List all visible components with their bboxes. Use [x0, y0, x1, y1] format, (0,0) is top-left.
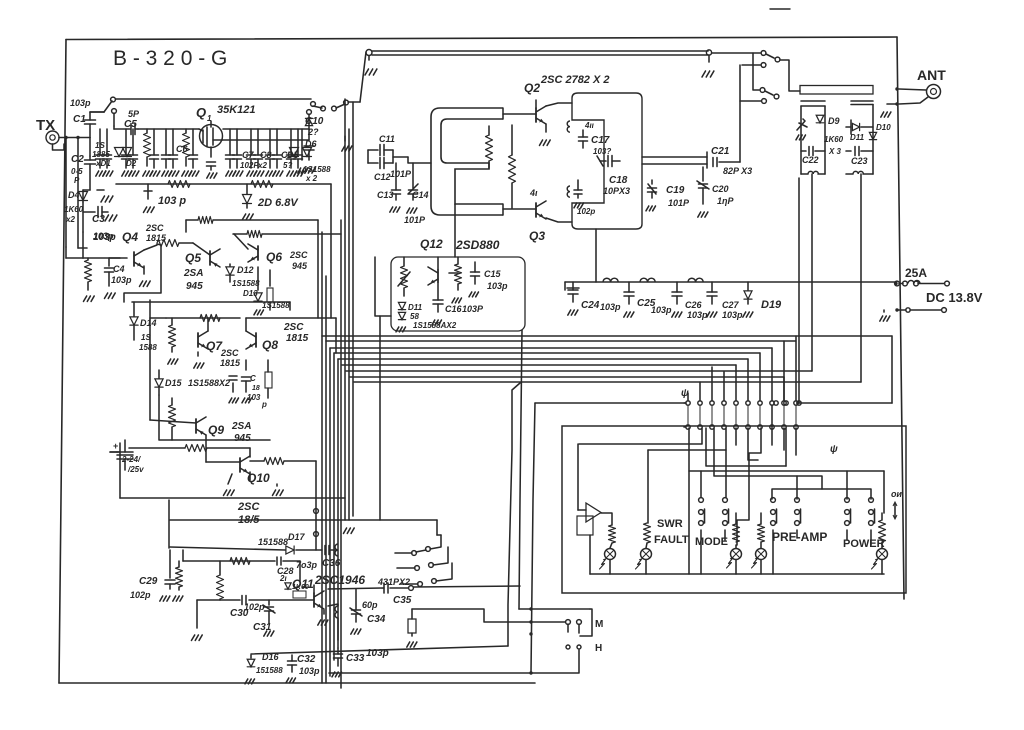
svg-text:2SA: 2SA — [231, 421, 251, 432]
svg-text:C21: C21 — [711, 146, 730, 157]
svg-text:2SC: 2SC — [220, 348, 239, 358]
label PRE-AMP — [772, 530, 827, 544]
wire — [230, 267, 270, 310]
capacitor C21 — [711, 146, 752, 176]
svg-text:C19: C19 — [666, 185, 685, 196]
svg-text:18: 18 — [252, 385, 260, 392]
wire bias rail — [116, 184, 331, 318]
svg-text:C20: C20 — [712, 184, 729, 194]
wire riser A — [508, 383, 520, 646]
label 103p — [158, 195, 186, 207]
inductor — [640, 278, 655, 282]
switch MODE b — [723, 498, 729, 540]
svg-text:C22: C22 — [802, 155, 819, 165]
svg-text:D2: D2 — [126, 159, 137, 168]
resistor — [251, 181, 273, 188]
svg-text:/25v: /25v — [127, 465, 144, 474]
svg-text:945: 945 — [292, 261, 308, 271]
label 60p C34 — [350, 589, 386, 634]
svg-text:Q9: Q9 — [208, 423, 224, 437]
electrolytic 2-24/25V — [110, 440, 144, 474]
bus right verticals — [784, 336, 892, 403]
diode D19 — [743, 282, 782, 317]
resistor — [452, 257, 462, 303]
svg-text:Q: Q — [196, 105, 206, 120]
ground — [342, 136, 352, 151]
diode block left D9 — [796, 101, 844, 174]
capacitor C27 — [707, 282, 743, 320]
svg-text:D19: D19 — [761, 299, 782, 311]
transistor Q6 2SC945 — [234, 234, 308, 271]
svg-text:SWR: SWR — [657, 518, 683, 530]
wire q7q8 — [150, 300, 336, 331]
capacitor C29 — [130, 550, 183, 601]
svg-text:C8: C8 — [260, 150, 272, 160]
switch M/H — [519, 607, 603, 673]
svg-text:58: 58 — [410, 312, 419, 321]
long verticals center — [341, 99, 354, 688]
svg-text:MODE: MODE — [695, 536, 728, 548]
wire riser — [314, 461, 319, 550]
svg-text:25A: 25A — [905, 266, 927, 280]
capacitor C1 — [70, 98, 96, 138]
svg-text:C27: C27 — [722, 300, 740, 310]
svg-text:4ιι: 4ιι — [584, 121, 595, 130]
wire C35 to MH — [412, 609, 565, 622]
transistor Q12 2SD880 — [420, 237, 500, 285]
svg-text:82P X3: 82P X3 — [723, 166, 752, 176]
wire rail 673 — [329, 671, 533, 674]
transistor Q5 2SA945 — [183, 243, 220, 292]
transistor Q7 2SC1815 — [198, 331, 241, 368]
capacitor C13 — [377, 163, 401, 212]
wire gate line — [138, 129, 309, 140]
resistor — [168, 181, 190, 188]
capacitor bank under Q1 — [96, 129, 304, 176]
wire feed top — [688, 336, 796, 401]
capacitor — [242, 360, 260, 403]
wire rail D17 — [170, 547, 322, 550]
svg-text:B - 3 2 0 - G: B - 3 2 0 - G — [113, 47, 227, 70]
svg-text:X 3: X 3 — [828, 147, 842, 156]
capacitor C3 — [83, 202, 117, 241]
label 103p — [93, 232, 116, 243]
svg-text:C23: C23 — [851, 156, 868, 166]
zener 2D6.8V — [243, 184, 300, 219]
ground — [880, 310, 890, 321]
svg-text:x2: x2 — [257, 161, 267, 170]
capacitor C17 — [579, 121, 612, 156]
svg-text:2SC: 2SC — [145, 223, 164, 233]
wire rail 520 — [169, 500, 441, 548]
resistor rect — [247, 360, 272, 409]
svg-text:2-24/: 2-24/ — [121, 455, 141, 464]
resistor — [169, 398, 176, 440]
svg-text:103p: 103p — [600, 302, 621, 312]
svg-text:Q8: Q8 — [262, 338, 278, 352]
svg-text:ψ: ψ — [830, 444, 838, 455]
svg-text:1815: 1815 — [286, 333, 309, 344]
wire row1 feed — [535, 402, 686, 404]
bus lines — [322, 336, 892, 382]
ground 102p — [574, 180, 595, 216]
capacitor C32 — [286, 654, 320, 683]
label POWER — [843, 538, 885, 550]
capacitor C24 — [567, 282, 621, 315]
wire left rails — [66, 138, 87, 259]
wire Q2 out — [546, 103, 572, 222]
label MODE — [695, 536, 728, 548]
svg-text:Q4: Q4 — [122, 230, 138, 244]
svg-text:M: M — [595, 619, 603, 630]
svg-text:FAULT: FAULT — [654, 534, 689, 546]
transistor Q3 — [529, 188, 546, 243]
svg-text:60p: 60p — [362, 600, 378, 610]
svg-text:1ηP: 1ηP — [717, 196, 735, 206]
capacitor C5 — [114, 109, 140, 135]
switch contacts top right — [321, 100, 360, 111]
wire collector loop — [124, 244, 161, 302]
ground — [224, 474, 235, 495]
wire — [503, 114, 536, 209]
svg-text:x 2: x 2 — [305, 174, 318, 183]
svg-text:C17: C17 — [591, 135, 610, 146]
wire LPF rail — [565, 229, 896, 290]
capacitor C20 — [697, 167, 735, 217]
svg-text:103p: 103p — [93, 232, 116, 243]
wire rail 234 — [233, 231, 341, 238]
capacitor C31 — [253, 600, 275, 636]
label 2SC1815 right — [283, 322, 309, 344]
border frame — [59, 9, 904, 683]
svg-text:D14: D14 — [140, 318, 157, 328]
label 1K60 x2 — [64, 205, 84, 224]
ground — [273, 484, 284, 495]
svg-text:D17: D17 — [288, 532, 306, 542]
control panel box — [562, 426, 906, 593]
svg-text:C34: C34 — [367, 614, 386, 625]
diode D4 — [68, 190, 90, 202]
resistor — [486, 126, 493, 168]
switch PREAMP a — [771, 498, 777, 574]
wire — [304, 129, 315, 173]
svg-text:2SD880: 2SD880 — [455, 238, 500, 252]
label 1S1588AX2 — [413, 321, 457, 330]
svg-text:103p: 103p — [687, 310, 708, 320]
ground — [881, 104, 897, 117]
svg-text:2ι: 2ι — [279, 574, 287, 583]
svg-text:102p: 102p — [130, 590, 151, 600]
svg-text:Q3: Q3 — [529, 229, 545, 243]
op-amp U1 — [577, 444, 612, 535]
ground — [702, 71, 714, 77]
FET Q1 35K121 — [196, 104, 256, 178]
TX connector — [36, 117, 90, 150]
transistor Q8 — [246, 331, 278, 352]
svg-text:D11: D11 — [850, 133, 865, 142]
diode D14 — [130, 302, 157, 352]
svg-text:431PX2: 431PX2 — [377, 577, 410, 587]
inductor — [688, 278, 703, 282]
relay contacts bottom — [395, 535, 452, 586]
connector row 2 — [684, 425, 838, 455]
wire base rail — [197, 599, 314, 601]
resistor — [176, 561, 183, 590]
svg-text:103p: 103p — [299, 666, 320, 676]
svg-text:35K121: 35K121 — [217, 104, 256, 116]
lamp SWR — [600, 525, 616, 574]
wire rail 302 — [132, 302, 290, 310]
svg-text:C15: C15 — [484, 269, 502, 279]
label 2SC1815 — [237, 501, 260, 526]
svg-text:101P: 101P — [404, 215, 426, 225]
wire — [449, 272, 458, 274]
shield line — [366, 50, 712, 63]
svg-text:C6: C6 — [176, 144, 188, 154]
ground — [192, 600, 203, 640]
bottom rail — [251, 646, 508, 654]
svg-text:POWER: POWER — [843, 538, 885, 550]
svg-text:P: P — [74, 176, 80, 185]
wire — [375, 257, 391, 520]
fuse 25A — [895, 266, 950, 286]
bus left verticals — [322, 336, 338, 683]
svg-text:101P: 101P — [390, 169, 412, 179]
svg-text:1K60: 1K60 — [824, 135, 844, 144]
switch S1a — [90, 97, 322, 112]
svg-text:C35: C35 — [393, 595, 412, 606]
capacitor C28 — [277, 557, 318, 581]
capacitor C35 — [328, 583, 520, 606]
capacitor C4 — [105, 258, 133, 298]
ground — [318, 610, 328, 625]
svg-text:2SC 2782 X 2: 2SC 2782 X 2 — [540, 74, 610, 86]
wire to balun — [408, 157, 431, 163]
svg-text:D9: D9 — [828, 116, 840, 126]
svg-text:103p: 103p — [111, 275, 132, 285]
svg-text:C32: C32 — [297, 654, 316, 665]
svg-text:1815: 1815 — [146, 233, 167, 243]
wire — [129, 445, 316, 481]
wire riser C — [529, 403, 535, 673]
wire vertical drops — [774, 174, 861, 405]
svg-text:103?: 103? — [593, 147, 611, 156]
svg-text:103p: 103p — [487, 281, 508, 291]
transistor Q2 — [524, 74, 610, 145]
capacitor C26 — [672, 282, 708, 320]
diode D15 — [155, 370, 230, 395]
svg-text:H: H — [595, 643, 602, 654]
svg-text:103 p: 103 p — [158, 195, 186, 207]
svg-text:C4: C4 — [113, 264, 125, 274]
capacitor C14 — [404, 163, 429, 225]
diode D1 D2 — [92, 141, 137, 168]
connector pins — [688, 405, 796, 425]
svg-text:151588: 151588 — [258, 537, 288, 547]
svg-text:102p: 102p — [244, 602, 265, 612]
capacitor C16 — [432, 284, 484, 325]
wire — [90, 112, 104, 156]
svg-text:Q6: Q6 — [266, 250, 282, 264]
transistor Q10 — [206, 435, 270, 485]
diode bias — [279, 574, 309, 598]
wire C21 riser — [740, 65, 766, 162]
svg-text:C7: C7 — [242, 150, 254, 160]
svg-text:103p: 103p — [651, 305, 672, 315]
resistor — [84, 258, 95, 301]
lamp PREAMP2 — [752, 513, 767, 574]
label on-off — [891, 489, 902, 519]
svg-text:103: 103 — [247, 393, 261, 402]
coil — [567, 186, 570, 197]
svg-text:4ι: 4ι — [529, 188, 538, 198]
svg-text:1588: 1588 — [139, 343, 157, 352]
resistor — [168, 318, 178, 364]
label SWR FAULT — [654, 518, 689, 546]
label 431PX2 — [377, 577, 410, 587]
svg-text:1815: 1815 — [220, 358, 241, 368]
resistor to gnd — [407, 609, 417, 647]
ground — [365, 69, 377, 75]
ground — [97, 190, 113, 202]
wire riser B — [519, 330, 522, 609]
inductor — [603, 278, 618, 282]
svg-text:C16: C16 — [445, 304, 463, 314]
svg-text:1S: 1S — [95, 141, 105, 150]
svg-text:2SC: 2SC — [283, 322, 304, 333]
capacitor C15 — [469, 262, 508, 297]
svg-text:+: + — [113, 441, 118, 451]
wire output pair — [642, 152, 707, 168]
svg-text:C18: C18 — [609, 175, 628, 186]
wire rail 220 — [186, 217, 318, 319]
svg-text:Q5: Q5 — [185, 251, 201, 265]
svg-text:2D 6.8V: 2D 6.8V — [257, 197, 299, 209]
wire emitter coil — [328, 604, 338, 648]
svg-text:10PX3: 10PX3 — [603, 186, 630, 196]
svg-text:5P: 5P — [128, 109, 140, 119]
DC 13.8V terminal — [895, 290, 982, 312]
connector row 1 — [681, 388, 892, 405]
svg-text:1S1588AX2: 1S1588AX2 — [413, 321, 457, 330]
svg-text:103P: 103P — [462, 304, 484, 314]
svg-text:C12: C12 — [374, 172, 391, 182]
svg-text:103p: 103p — [722, 310, 743, 320]
capacitor C6 — [176, 144, 188, 154]
svg-text:2SC: 2SC — [237, 501, 260, 513]
coil — [567, 121, 570, 132]
resistor — [144, 240, 193, 251]
svg-text:Q12: Q12 — [420, 237, 443, 251]
capacitor C18 — [597, 156, 630, 197]
svg-text:DC 13.8V: DC 13.8V — [926, 290, 983, 305]
ground — [144, 184, 155, 212]
ground — [229, 376, 239, 403]
wire cluster to bus — [322, 232, 336, 353]
svg-text:Q2: Q2 — [524, 81, 540, 95]
svg-text:D15: D15 — [165, 378, 183, 388]
svg-text:oᴎ: oᴎ — [891, 489, 902, 499]
wire right drop — [298, 129, 308, 173]
svg-text:D11: D11 — [408, 303, 423, 312]
svg-text:5?: 5? — [283, 161, 292, 170]
svg-text:1K60: 1K60 — [292, 584, 309, 591]
resistor — [398, 257, 410, 296]
switch POWER b — [869, 498, 875, 545]
capacitor C10 — [305, 110, 324, 137]
switch POWER a — [845, 498, 851, 540]
balun input transformer — [431, 108, 503, 257]
diode block right D10 D11 — [846, 101, 891, 174]
svg-text:C13: C13 — [377, 190, 394, 200]
wire — [150, 318, 270, 440]
lamp FAULT — [636, 523, 652, 574]
diode D5 D6 — [287, 139, 331, 183]
svg-text:2SC: 2SC — [289, 250, 308, 260]
diode Dn — [396, 302, 423, 331]
svg-text:D16: D16 — [262, 652, 280, 662]
svg-text:C11: C11 — [379, 134, 395, 144]
svg-text:D6: D6 — [305, 139, 317, 149]
junction — [894, 282, 897, 285]
svg-text:1S1588X2: 1S1588X2 — [188, 378, 230, 388]
svg-text:101P: 101P — [668, 198, 690, 208]
svg-text:151588: 151588 — [256, 666, 283, 675]
svg-text:D12: D12 — [237, 265, 254, 275]
resistor — [217, 561, 224, 600]
svg-text:1S1588: 1S1588 — [232, 279, 260, 288]
svg-text:102P: 102P — [240, 161, 259, 170]
diode D16 — [245, 652, 283, 684]
diode D17 151588 — [258, 532, 306, 554]
svg-text:103p: 103p — [366, 648, 389, 659]
svg-text:PRE-AMP: PRE-AMP — [772, 530, 827, 544]
diode D12 — [226, 264, 260, 288]
svg-text:945: 945 — [186, 281, 203, 292]
svg-text:945: 945 — [234, 433, 251, 444]
ground — [140, 266, 151, 286]
capacitor C9 label — [281, 150, 293, 170]
open contact — [112, 109, 117, 126]
capacitor C33 — [332, 648, 389, 677]
svg-text:C14: C14 — [412, 190, 429, 200]
capacitor C36 — [322, 544, 341, 569]
diode D13 + resistor — [243, 288, 290, 315]
capacitor C25 — [624, 282, 672, 317]
svg-text:C33: C33 — [346, 653, 365, 664]
svg-text:C36: C36 — [322, 558, 341, 569]
wire — [360, 52, 366, 102]
combiner outline — [572, 93, 642, 229]
transistor Q4 2SC1815 — [83, 223, 167, 268]
resistor — [509, 125, 516, 208]
switch MODE a — [699, 498, 705, 574]
capacitor C19 — [646, 180, 690, 211]
svg-text:103p: 103p — [70, 98, 91, 108]
svg-text:C: C — [250, 374, 256, 383]
wire rail 561 — [183, 550, 275, 565]
svg-text:ANT: ANT — [917, 67, 946, 83]
panel inner rail — [590, 535, 884, 574]
block Q12 outline — [391, 257, 525, 331]
stripline — [800, 86, 873, 95]
wire feeds — [736, 405, 796, 455]
svg-text:2SC1946: 2SC1946 — [314, 573, 365, 587]
svg-text:C29: C29 — [139, 576, 158, 587]
ground — [194, 352, 204, 368]
svg-text:102p: 102p — [577, 207, 595, 216]
svg-text:D10: D10 — [876, 123, 891, 132]
